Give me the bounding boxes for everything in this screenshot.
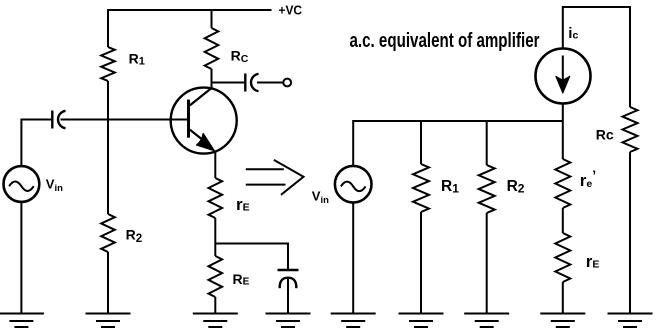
wire R2 to ground: [107, 252, 109, 314]
ground at Vin (right): [331, 314, 376, 328]
wire capacitor to output terminal: [257, 82, 283, 84]
label R1: [129, 50, 145, 67]
wire emitter to rE: [214, 151, 216, 178]
label ic: [568, 25, 578, 42]
wire from top rail to R1: [107, 9, 109, 47]
wire Rc to ground (right): [629, 152, 631, 314]
label RE: [233, 271, 250, 288]
source Vin (right): [335, 166, 372, 203]
wire Vin to bus (right): [352, 120, 354, 166]
label R2 (right): [507, 178, 525, 196]
wire bus to R1 (right): [420, 120, 422, 164]
resistor rE (left): [209, 178, 223, 218]
ground at R1 (right): [399, 314, 444, 328]
wire R2 to ground (right): [486, 213, 488, 314]
resistor R1 (right): [413, 164, 429, 212]
resistor RE: [209, 256, 223, 297]
wire re' to rE (right): [562, 208, 564, 233]
svg-text:+VC: +VC: [279, 3, 303, 18]
wire input capacitor to base: [61, 119, 189, 121]
resistor R2: [101, 214, 115, 252]
transistor Q1: [171, 87, 237, 154]
wire ac bus: [353, 120, 563, 122]
current source ic: [536, 49, 591, 104]
resistor RC: [205, 28, 219, 69]
wire R1 to ground (right): [420, 212, 422, 314]
wire top supply rail: [107, 9, 272, 11]
label R1 (right): [441, 178, 459, 196]
svg-text:Rc: Rc: [596, 126, 614, 142]
capacitor input coupling: [52, 111, 65, 129]
symbol implication arrow: [246, 160, 304, 195]
ground at bypass capacitor: [266, 314, 311, 328]
ground at Vin (left): [0, 314, 44, 328]
label Vin (left): [46, 176, 63, 194]
ground at RE: [193, 314, 238, 328]
label RC: [231, 47, 249, 65]
label Rc (right): [596, 126, 614, 142]
wire collector node to output capacitor: [212, 82, 246, 84]
wire Vin to input capacitor: [21, 120, 52, 167]
ground at R2 (right): [464, 314, 509, 328]
wire top link current source to Rc: [563, 7, 630, 107]
source Vin (left): [4, 166, 40, 202]
wire bypass branch: [215, 244, 288, 270]
label rE (left): [236, 195, 250, 214]
wire bus to re': [562, 121, 564, 159]
wire R1 to R2 through base node: [107, 81, 109, 214]
wire RC to collector node: [211, 69, 213, 89]
node +VC label: [279, 3, 303, 18]
ground at Rc (right): [608, 314, 653, 328]
resistor Rc (right): [623, 107, 638, 152]
wire current source to bus: [562, 104, 564, 122]
label re': [580, 167, 596, 190]
label circuit title: [350, 30, 540, 52]
node output terminal: [283, 79, 291, 87]
resistor R2 (right): [479, 165, 495, 213]
wire bypass capacitor to ground: [287, 279, 289, 314]
wire from top rail to RC: [211, 9, 213, 28]
resistor R1: [101, 47, 115, 81]
label Vin (right): [312, 189, 329, 207]
resistor rE (right): [555, 233, 570, 282]
ground at rE (right): [540, 314, 585, 328]
resistor re': [555, 159, 570, 208]
wire RE to ground: [214, 297, 216, 314]
wire Vin to ground: [20, 202, 22, 314]
label rE (right): [586, 252, 600, 271]
wire rE to bypass node: [214, 218, 216, 256]
capacitor output coupling: [245, 74, 258, 92]
label R2: [126, 226, 143, 245]
wire rE to ground (right): [562, 282, 564, 314]
wire bus to R2 (right): [486, 120, 488, 165]
svg-text:a.c. equivalent of amplifier: a.c. equivalent of amplifier: [350, 30, 540, 52]
ground at R2: [86, 314, 131, 328]
capacitor bypass CE: [278, 270, 299, 288]
wire Vin to ground (right): [352, 203, 354, 314]
